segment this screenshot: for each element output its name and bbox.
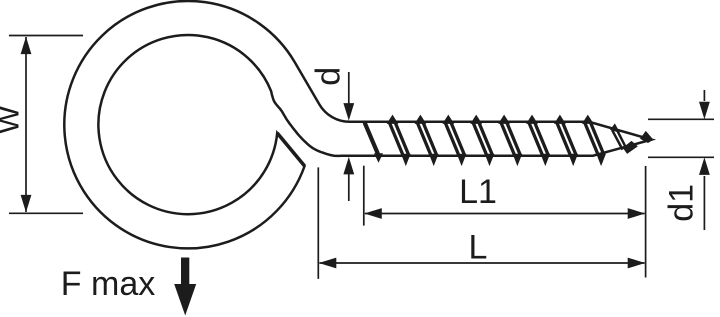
svg-text:L1: L1	[459, 173, 497, 211]
thread turn 8	[555, 116, 577, 165]
thread turn 2	[388, 116, 410, 165]
svg-text:L: L	[469, 229, 488, 267]
dimension d1: extension lines, arrows, label	[648, 118, 714, 120]
svg-text:F max: F max	[61, 265, 155, 303]
thread turn 7	[527, 116, 549, 165]
thread turn 10 (on cone)	[611, 124, 637, 153]
thread turn 1 (partial, at thread start)	[365, 123, 383, 162]
dimension W: extension lines, double arrow, label	[9, 35, 83, 37]
wire end cut line (bold)	[277, 133, 304, 166]
screw eye body outline (ring + shank + point)	[64, 1, 651, 248]
dimension d: arrows above/below shank, label	[348, 72, 350, 105]
svg-text:d1: d1	[663, 184, 701, 222]
thread turn 5	[471, 116, 493, 165]
thread turn 3	[415, 116, 437, 165]
dimension L: extension line, dimension line, label	[317, 167, 319, 279]
thread turn 9	[583, 116, 605, 165]
thread turn 6	[499, 116, 521, 165]
thread at screw point	[640, 131, 653, 143]
svg-text:d: d	[310, 67, 348, 86]
svg-text:W: W	[0, 105, 26, 134]
thread turn 4	[443, 116, 465, 165]
dimension L1: extension lines, dimension line, label	[363, 166, 365, 226]
